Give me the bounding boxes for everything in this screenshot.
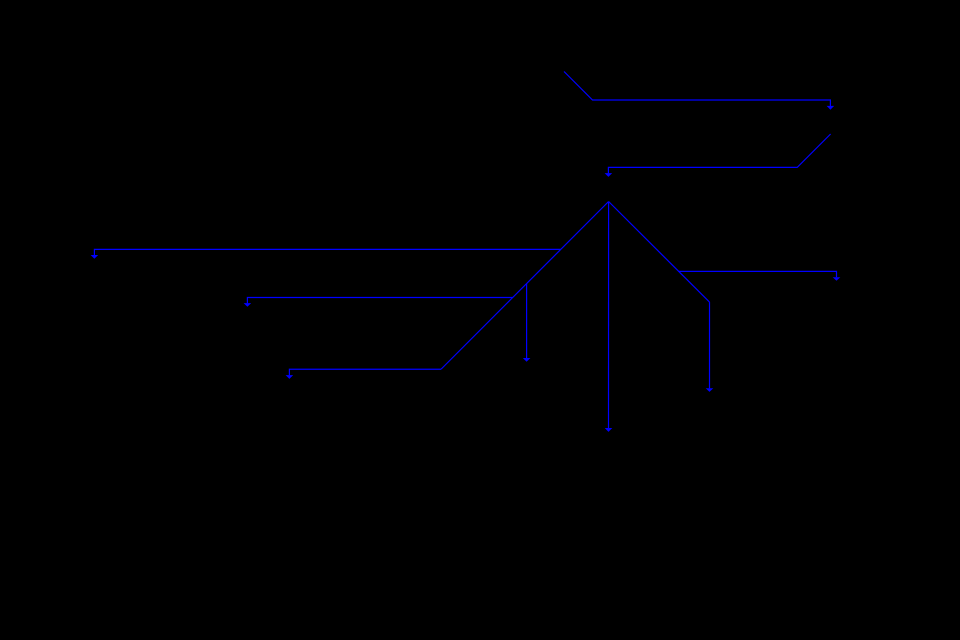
wire edge3g right vertical drop [709,302,711,388]
arrowhead edge3b [523,358,531,362]
arrowhead edge3f [833,277,841,281]
wire hub left diagonal [441,202,609,370]
wire edge2 node2 to hub [608,134,830,173]
arrowhead edge1 at node2 [827,106,835,110]
wire edge3a horizontal to far left child [94,249,560,255]
arrowhead edge3e [605,428,613,432]
wire edge3d horizontal to lower left child [289,369,441,375]
arrowhead edge3c [244,303,252,307]
arrowhead edge3d [286,375,294,379]
wire edge3b vertical drop child [526,284,528,359]
wire edge3e central vertical [608,202,610,429]
arrowhead edge3a [91,255,99,259]
wire edge3c horizontal to left child [247,298,512,304]
wire edge1 node1 to node2 [564,72,830,107]
arrowhead edge3g [706,388,714,392]
arrowhead edge2 at hub [605,173,613,177]
wire edge3f horizontal to right child [678,271,836,277]
wire hub right diagonal [609,202,710,303]
